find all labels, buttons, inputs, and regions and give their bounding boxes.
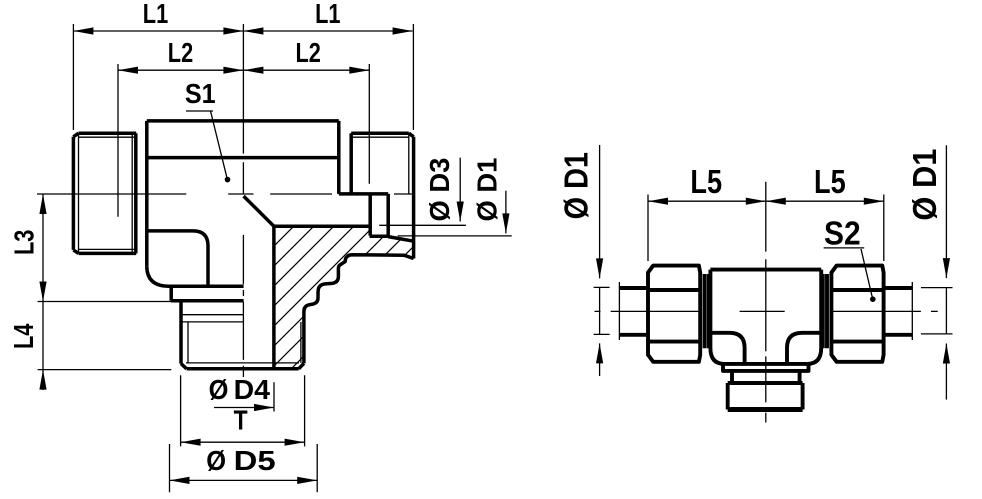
- svg-text:L5: L5: [814, 163, 846, 200]
- svg-text:S2: S2: [824, 215, 861, 252]
- svg-text:Ø: Ø: [206, 445, 226, 476]
- svg-text:L5: L5: [690, 163, 722, 200]
- svg-text:L4: L4: [8, 323, 39, 349]
- svg-text:L1: L1: [143, 0, 168, 29]
- svg-text:Ø D1: Ø D1: [472, 158, 503, 222]
- svg-text:D5: D5: [234, 445, 276, 476]
- svg-text:Ø: Ø: [209, 374, 229, 405]
- svg-text:T: T: [234, 405, 248, 436]
- svg-text:D4: D4: [234, 374, 271, 405]
- svg-text:S1: S1: [185, 78, 216, 109]
- svg-text:Ø D1: Ø D1: [906, 149, 943, 221]
- svg-text:Ø D1: Ø D1: [558, 152, 595, 219]
- svg-text:Ø D3: Ø D3: [424, 158, 455, 222]
- svg-text:L1: L1: [315, 0, 340, 29]
- svg-text:L2: L2: [168, 37, 193, 68]
- svg-text:L2: L2: [296, 37, 321, 68]
- svg-text:L3: L3: [9, 230, 40, 255]
